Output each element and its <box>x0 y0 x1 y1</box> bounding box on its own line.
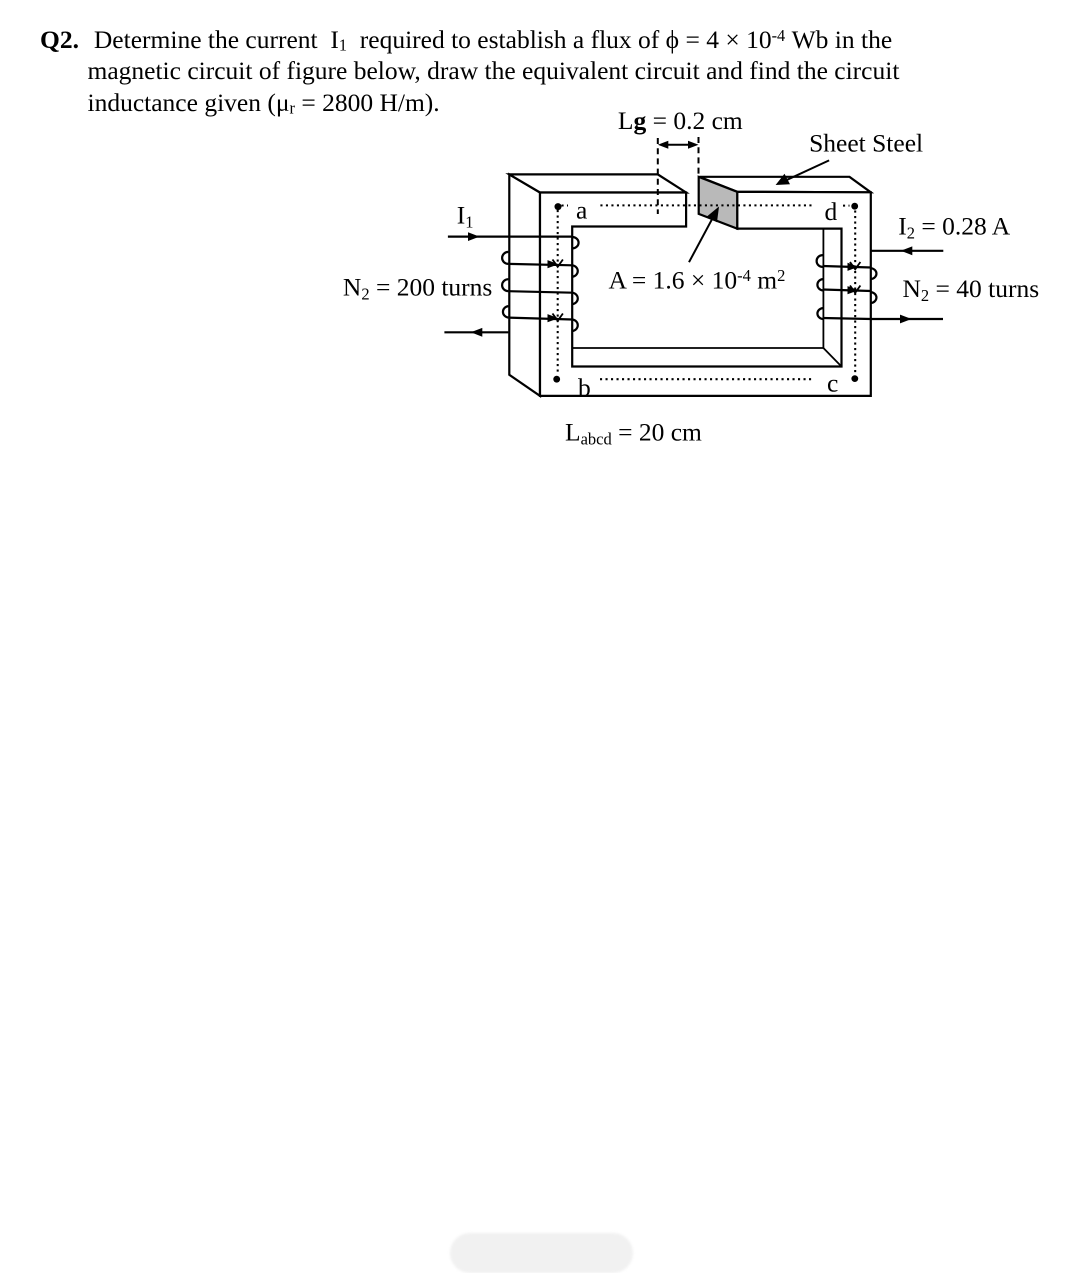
I2 wire arrowhead <box>901 246 913 255</box>
right coil: crossing wire 2 <box>823 290 871 292</box>
dotted flux line b-c (bottom) <box>600 378 812 380</box>
right coil: left arc 2 <box>817 279 822 290</box>
right coil wire-1 arrowhead <box>848 263 859 271</box>
node c dot <box>851 375 858 382</box>
right coil: left arc 1 <box>817 255 823 267</box>
left coil: right arc 1 <box>572 237 578 248</box>
right coil: left arc 3 <box>817 308 822 319</box>
left coil: crossing wire 2 <box>508 264 572 265</box>
gap arrow left head <box>658 141 669 149</box>
question text paragraph <box>0 24 1010 119</box>
Sheet-Steel leader arrowhead <box>776 174 790 185</box>
chevron on right dotted at wire2 <box>850 286 860 293</box>
node d dot <box>851 203 858 210</box>
leader line for Sheet Steel label <box>780 160 830 183</box>
svg-text:a: a <box>576 195 587 224</box>
gap double-headed arrow <box>661 144 695 146</box>
svg-text:b: b <box>578 373 591 402</box>
gap arrow right head <box>688 141 699 149</box>
svg-text:Labcd = 20 cm: Labcd = 20 cm <box>565 418 702 449</box>
svg-text:A = 1.6 × 10-4 m2: A = 1.6 × 10-4 m2 <box>609 266 786 295</box>
right exit wire arrowhead <box>900 315 912 324</box>
svg-text:Lg = 0.2 cm: Lg = 0.2 cm <box>618 106 743 135</box>
I1 wire arrowhead <box>468 232 480 241</box>
dashed gap measurement line right <box>698 137 700 177</box>
dotted flux line a-d (top) <box>600 204 812 206</box>
left coil: left arc 1 <box>502 252 508 264</box>
left coil wire-2 arrowhead <box>548 260 559 268</box>
svg-text:I2 = 0.28 A: I2 = 0.28 A <box>898 212 1010 243</box>
svg-text:d: d <box>825 197 838 226</box>
left coil: exit wire <box>444 331 508 333</box>
right coil: crossing wire 1 <box>823 266 871 268</box>
left coil: right arc 4 <box>572 320 577 332</box>
chevron on left dotted at wire2 <box>553 260 563 267</box>
left coil: crossing wire 4 <box>508 318 572 320</box>
svg-text:N2 = 200 turns: N2 = 200 turns <box>343 273 492 304</box>
air-gap cut face (shaded) <box>699 177 738 229</box>
chevron on right dotted at wire1 <box>850 262 860 269</box>
core top face left section <box>509 174 686 192</box>
A-label leader arrowhead <box>707 207 719 223</box>
node a dot <box>555 203 562 210</box>
left coil wire-4 arrowhead <box>548 314 559 322</box>
left coil: crossing wire 3 <box>508 291 572 293</box>
dashed gap measurement line left <box>657 138 659 214</box>
left coil: left arc 2 <box>502 279 508 291</box>
right coil: right arc 2 <box>871 292 876 303</box>
left exit wire arrowhead <box>471 328 483 337</box>
dotted stub left of node d <box>843 205 850 207</box>
node b dot <box>553 376 560 383</box>
left coil: left arc 3 <box>503 306 508 318</box>
dotted flux line d-c (right limb) <box>854 211 856 375</box>
core front face ring with air-gap slot <box>540 192 871 396</box>
left coil: I1 entry wire <box>448 236 572 238</box>
svg-text:I1: I1 <box>457 200 474 231</box>
dotted stub right of node a <box>562 204 569 206</box>
right coil: I2 entry wire <box>871 250 943 252</box>
leader line for A label <box>689 212 716 262</box>
right coil: right arc 1 <box>871 268 876 279</box>
right coil: crossing wire 3 / exit wire <box>823 318 943 319</box>
dotted flux line a-b (left limb) <box>557 210 559 375</box>
right coil wire-2 arrowhead <box>848 286 859 294</box>
svg-text:c: c <box>827 369 838 398</box>
left coil: right arc 3 <box>572 293 577 305</box>
inner back edge: top surface of bottom limb <box>572 348 841 367</box>
svg-text:Sheet Steel: Sheet Steel <box>809 128 923 157</box>
bottom watermark pill <box>450 1233 633 1273</box>
core top face right section <box>699 177 871 193</box>
flux direction chevrons on dotted lines <box>553 260 861 321</box>
inner back edge: inner surface of right limb <box>822 229 824 348</box>
core left face <box>509 174 540 396</box>
chevron on left dotted at wire4 <box>553 314 563 321</box>
left coil: right arc 2 <box>572 265 577 277</box>
svg-text:N2 = 40 turns: N2 = 40 turns <box>903 274 1040 305</box>
